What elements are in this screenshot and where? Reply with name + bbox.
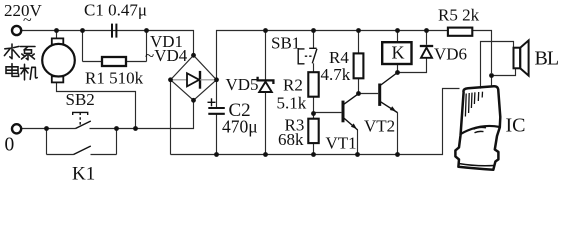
wire R4 bottom to node [358,78,360,93]
music IC module body [455,86,500,170]
svg-text:5.1k: 5.1k [277,94,307,113]
wire K1 branch left drop [46,129,48,155]
wire R3 to ground rail [313,143,315,154]
label water pump motor (drawn CJK strokes) [4,44,37,80]
zener diode VD5 [258,77,274,92]
svg-text:4.7k: 4.7k [321,65,351,84]
wire bridge left vertex to ground rail [170,80,172,155]
char dian [6,64,19,77]
relay contact K1 [74,146,91,155]
char ji [21,64,38,80]
IC module band [461,126,500,134]
wire VD5 column [265,31,267,155]
pushbutton SB2 [73,112,91,128]
wire R1 leads [83,61,147,63]
IC hatch lines [465,92,482,117]
resistor R3 [308,119,318,143]
wire SB2 row right to bridge bottom [90,100,194,128]
svg-text:R2: R2 [283,76,303,95]
wire VD6 top [426,31,428,45]
svg-text:R1 510k: R1 510k [85,69,144,88]
wire SB1 top [313,31,315,49]
wire bottom ground rail [171,89,460,155]
wire C1R1 loop left drop [82,31,84,62]
wire top AC rail [22,31,194,56]
wire R2 to R3 [313,97,315,119]
wire C2 column [216,80,218,155]
bridge rectifier VD1~VD4 [171,55,217,100]
speaker BL [514,40,529,75]
wire VT2 base [359,93,379,95]
svg-text:C1 0.47μ: C1 0.47μ [84,1,147,20]
svg-text:~: ~ [23,12,32,29]
svg-text:SB1: SB1 [271,34,300,53]
C2 plus sign [208,98,216,106]
wire C1R1 loop right drop [146,31,148,62]
transistor VT2 [380,73,398,113]
svg-text:VT2: VT2 [364,117,395,136]
terminal 0 [12,124,21,133]
wire node to VD6 bottom [398,58,427,73]
relay coil K [382,42,411,64]
wire R5 right lead down [472,31,491,74]
svg-text:VT1: VT1 [326,134,357,153]
svg-text:K1: K1 [72,164,95,185]
diode VD6 [420,46,433,58]
terminal 220V [12,26,21,35]
wire K1 row [47,154,117,156]
wire K coil bottom to node [397,64,399,73]
capacitor C2 electrolytic [208,108,225,114]
bridge inner diode [171,71,217,89]
svg-text:K: K [392,42,405,62]
resistor R4 [354,53,364,78]
svg-text:VD6: VD6 [434,45,467,64]
wire SB2 row left [22,128,76,130]
pushbutton SB1 [298,48,317,64]
svg-text:R5 2k: R5 2k [438,6,480,25]
wire SB1 bottom to R2 [313,63,315,72]
svg-text:~VD4: ~VD4 [145,46,188,65]
wire bridge right vertex to DC+ rail [217,31,448,80]
motor M water pump [42,38,75,82]
transistor VT1 [343,94,359,130]
wire VT1 base [314,112,342,114]
wire motor bottom to SB2 row [57,82,136,128]
resistor R5 [448,28,472,36]
wire VT2 emitter down [397,113,399,155]
svg-text:0: 0 [5,135,15,156]
wire speaker top lead [481,42,514,89]
svg-text:IC: IC [506,115,526,137]
resistor R1 [102,57,126,66]
char beng [21,47,36,60]
wire R5 node to IC [491,76,493,87]
wire K1 branch right drop [116,129,118,155]
svg-text:470μ: 470μ [222,117,258,137]
wire VT1 emitter down [357,130,359,155]
wire motor top drop [56,31,58,39]
wire K coil top [397,31,399,43]
svg-text:VD5: VD5 [226,75,259,94]
svg-text:BL: BL [535,48,559,70]
svg-text:68k: 68k [278,130,304,149]
wire R4 top [358,31,360,54]
char shui [4,44,19,59]
capacitor C1 [112,24,116,38]
svg-text:SB2: SB2 [66,90,95,109]
IC tilde marks [474,127,487,132]
IC module bottom seam [459,164,495,166]
wire speaker bottom lead [492,68,516,75]
resistor R2 [308,72,318,97]
